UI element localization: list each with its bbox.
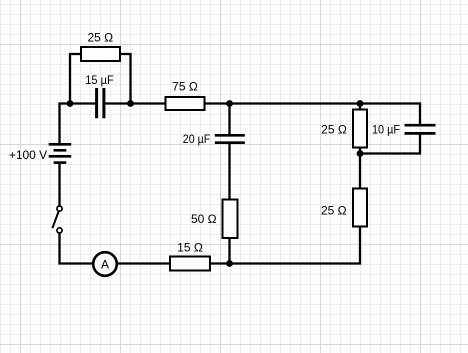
wire capacitor 20uF bottom plate to resistor 50ohm [228, 144, 230, 200]
wire node F to resistor 25ohm right-bottom [359, 154, 361, 190]
resistor 15 ohm bottom [170, 257, 210, 271]
resistor 25 ohm top-left [81, 47, 120, 61]
wire capacitor 15uF right plate to node B [105, 102, 131, 104]
capacitor 20 uF plates [215, 135, 245, 142]
svg-text:10 µF: 10 µF [372, 123, 400, 137]
node C junction dot [226, 100, 233, 107]
wire resistor 25ohm right-top to node F [359, 148, 361, 154]
wire battery top to node A [60, 104, 71, 144]
wire node B to resistor 75ohm [131, 102, 167, 104]
svg-text:15 µF: 15 µF [85, 73, 113, 87]
wire resistor 75ohm to node C [205, 102, 230, 104]
wire node C down to capacitor 20uF top plate [228, 104, 230, 137]
svg-text:25 Ω: 25 Ω [321, 204, 347, 218]
svg-text:25 Ω: 25 Ω [87, 31, 113, 45]
resistor 25 ohm right-bottom (vertical) [353, 189, 367, 227]
wire node A to capacitor 15uF left plate [70, 102, 96, 104]
battery +100 V plates [49, 144, 71, 162]
wire node D to resistor 25ohm right-top [359, 104, 361, 111]
svg-text:75 Ω: 75 Ω [172, 80, 198, 94]
wire resistor 15ohm left lead to ammeter [117, 262, 170, 264]
node D junction dot [357, 100, 364, 107]
wire switch top to battery bottom [58, 164, 60, 206]
wire node C to node D [230, 102, 361, 104]
wire resistor 50ohm to node E [228, 239, 230, 264]
svg-text:50 Ω: 50 Ω [191, 212, 217, 226]
capacitor 10 uF plates [405, 125, 436, 133]
wire resistor 25ohm right-bottom to bottom rail and node E [211, 227, 361, 264]
wire capacitor 10uF bottom to node F [360, 133, 420, 154]
wire ammeter left to bottom-left corner up to switch [60, 233, 94, 264]
wire node A up-left lead of resistor 25ohm [70, 54, 81, 105]
node A junction dot [67, 100, 74, 107]
svg-text:25 Ω: 25 Ω [321, 123, 347, 137]
resistor 75 ohm [166, 97, 205, 110]
svg-text:20 µF: 20 µF [183, 132, 210, 146]
switch (open) [52, 206, 62, 233]
wire node D to capacitor 10uF top [360, 104, 420, 127]
resistor 50 ohm (vertical) [223, 200, 238, 239]
wire resistor 25ohm right lead down to node B [121, 54, 131, 104]
node B junction dot [127, 100, 134, 107]
resistor 25 ohm right-top (vertical) [353, 110, 367, 148]
capacitor 15 uF plates [97, 88, 104, 118]
svg-text:15 Ω: 15 Ω [177, 240, 203, 254]
ammeter [93, 252, 117, 276]
svg-text:+100 V: +100 V [9, 148, 47, 162]
node E junction dot [226, 260, 233, 267]
svg-text:A: A [101, 257, 109, 271]
node F junction dot [357, 150, 364, 157]
